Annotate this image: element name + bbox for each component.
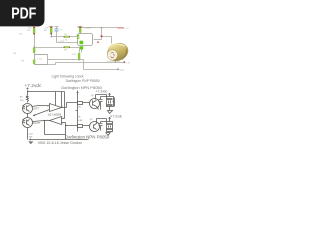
wire output2 to base R (66, 125, 90, 127)
pin blob U1 left 2 (77, 37, 79, 39)
wire pin6 (62, 122, 66, 124)
resistor R1 (S1 green vertical) (33, 27, 35, 35)
wire top-right rail (78, 27, 118, 29)
resistor R8 (on rect left edge) (33, 60, 35, 64)
wire sensor2 to A2 out (33, 121, 45, 122)
power plus V+ (27, 88, 29, 90)
node rail5/R9 (78, 59, 79, 60)
wire S4 vertical (78, 27, 83, 34)
svg-text:Darlington NPN P8050: Darlington NPN P8050 (65, 135, 110, 140)
ground bus arrow (30, 139, 89, 141)
wire Q1 collector (96, 95, 107, 100)
resistor Rb2 (78, 125, 83, 128)
node rail6 cylinder (115, 61, 116, 62)
phototransistor Q2R symbol (23, 120, 30, 126)
pin blob U1 left (77, 35, 80, 37)
node V+ (27, 91, 28, 92)
node A2out/sensor (44, 120, 45, 121)
svg-text:6.8K: 6.8K (78, 120, 83, 122)
junction dots (33, 27, 116, 63)
op-amp A1 triangle (50, 104, 62, 112)
svg-text:+ M: + M (126, 62, 130, 64)
svg-text:3: 3 (47, 106, 48, 108)
wire output1 feed (61, 92, 63, 108)
svg-text:Darlington PNP P8550: Darlington PNP P8550 (66, 79, 100, 83)
wire loop to bus (65, 135, 67, 140)
wire cylinder stub (115, 61, 117, 63)
motor M1 body (107, 97, 114, 107)
top rail (28, 91, 65, 93)
resistor R1 zigzag (27, 96, 29, 103)
junction dots bottom (27, 91, 67, 127)
wire V+ down (27, 91, 29, 96)
svg-text:Darlington NPN P8050: Darlington NPN P8050 (61, 85, 102, 90)
wire rail corner to pin5 (62, 92, 65, 119)
PDF badge (0, 0, 45, 26)
resistor Rb1 (78, 102, 83, 105)
wire rail3 (35, 47, 80, 49)
svg-text:PDF: PDF (11, 6, 36, 23)
resistor R2 (S2 green vertical) (50, 27, 52, 35)
wire S3 capacitor stubs (55, 27, 59, 43)
svg-text:(+7.2vdc: (+7.2vdc (110, 114, 123, 118)
capacitor Cm1 (99, 97, 107, 110)
resistor R5 (horizontal on rail1) (64, 36, 70, 38)
wire rail6 under cylinder (56, 62, 125, 64)
phototransistor Q1L symbol (23, 106, 30, 112)
wire rail1 (52, 36, 78, 38)
power tick S1 (32, 26, 37, 28)
capacitor Cm2 (99, 122, 107, 131)
svg-text:LEFT: LEFT (33, 108, 40, 111)
wire rail5 (48, 59, 84, 61)
red dot rail6 end (124, 61, 126, 62)
wire S2 vertical (49, 27, 54, 37)
resistor R7 (on rail4 chain) (33, 48, 35, 53)
wire into pin2 diagonal (34, 110, 50, 116)
wire M1 right (113, 98, 115, 107)
node rail3/S1 (33, 47, 34, 48)
node pin6/base2 (65, 125, 66, 126)
wire from box right (94, 37, 102, 40)
wire feed to cylinder (102, 28, 112, 44)
red rail end (117, 27, 124, 29)
svg-text:7: 7 (47, 120, 48, 122)
wire M1 plus stub (109, 94, 111, 97)
svg-text:1.5K: 1.5K (63, 40, 68, 42)
capacitor C1 (blue) (55, 28, 59, 31)
wire M2 plus stub (109, 118, 111, 122)
transistor Q1 symbol (93, 101, 97, 107)
green square below U1 (80, 46, 84, 49)
wire green square stub (81, 50, 83, 53)
top schematic tiny labels (14, 26, 130, 71)
svg-text:bk(-): bk(-) (120, 69, 124, 71)
wire output1 to base R (62, 103, 90, 108)
svg-text:1: 1 (62, 106, 63, 108)
ground M1 (108, 107, 113, 114)
phototransistor Q1L circle (23, 104, 33, 114)
svg-text:VBG 10-6-16 Jesse Gordon: VBG 10-6-16 Jesse Gordon (38, 141, 82, 145)
wire between sensors (27, 114, 29, 118)
wire A2 output loop (45, 121, 66, 135)
motor M2 body (107, 122, 113, 132)
red dot box right (97, 42, 99, 43)
relay box K1 (35, 55, 48, 65)
blue dot rail7 end (117, 69, 119, 71)
svg-text:Light following robot: Light following robot (52, 74, 84, 78)
transistor Q2 circle (90, 122, 100, 132)
wire rail2 (57, 42, 78, 44)
wire rail4 (35, 54, 48, 56)
wire into pin3 (32, 106, 50, 107)
node rail1/S2 (51, 36, 52, 37)
wire Q2 collector (97, 119, 107, 124)
svg-text:5: 5 (62, 117, 63, 119)
svg-text:+9v: +9v (125, 28, 128, 30)
svg-text:6: 6 (62, 123, 63, 125)
resistor R3 (S4 green vertical) (79, 27, 81, 33)
svg-text:+7.2vdc: +7.2vdc (96, 89, 108, 93)
ground glyph date line (28, 141, 33, 144)
transistor Q1 circle (90, 99, 100, 109)
wire bottom bus (35, 48, 56, 65)
wire Q1 emitter (97, 107, 99, 110)
resistor R9 (vertical right) (78, 53, 80, 59)
resistor R6 (horizontal on rail3) (64, 46, 70, 48)
wire rail7 (84, 60, 118, 70)
pin blob U1 inner (80, 41, 84, 45)
op-amp A2 triangle (mirrored) (50, 117, 62, 125)
wire S1 vertical (34, 27, 36, 48)
ground M2 (106, 132, 111, 136)
wire R9 stub (79, 48, 81, 60)
svg-text:4.7K: 4.7K (72, 54, 77, 56)
svg-text:RIGHT: RIGHT (32, 122, 40, 125)
transistor Q2 symbol (94, 124, 97, 130)
red tick corner (101, 35, 103, 37)
svg-text:2: 2 (47, 110, 48, 112)
svg-text:LM393: LM393 (52, 113, 61, 117)
op-amp box U1 outline (78, 34, 93, 46)
phototransistor Q2R circle (23, 118, 33, 128)
motor M0 photo (gold cylinder) (105, 40, 131, 64)
node top rail (101, 27, 102, 28)
wire power column (76, 91, 79, 132)
wire sensor bottom (27, 128, 29, 140)
bottom schematic labels (20, 83, 123, 145)
svg-text:1/2: 1/2 (47, 113, 51, 117)
wire power pin8 (55, 92, 57, 106)
